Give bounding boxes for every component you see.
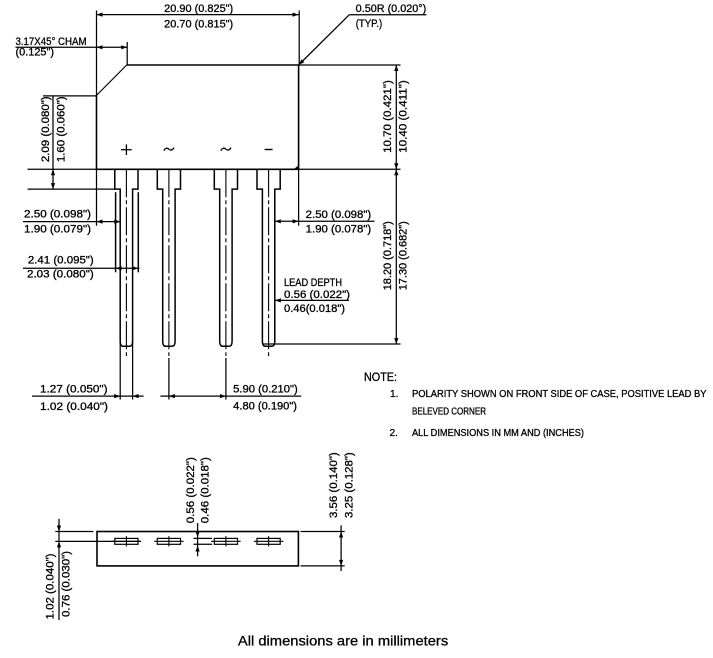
extension line body bottom right bbox=[299, 168, 401, 170]
lead depth dim line bbox=[275, 298, 349, 302]
dim text 20.70 bbox=[164, 19, 233, 31]
svg-text:10.40 (0.411"): 10.40 (0.411") bbox=[397, 80, 409, 153]
lead 4 centerline bbox=[268, 169, 270, 356]
lead 3 outline bbox=[214, 169, 237, 346]
dim text 1.90 right bbox=[306, 223, 372, 235]
dim text 2.50 left bbox=[24, 209, 91, 221]
extension line pin left bbox=[119, 341, 121, 400]
dim line 2.50 right bbox=[275, 219, 375, 223]
extension line body left lower bbox=[96, 169, 98, 225]
side view body outline bbox=[97, 532, 298, 566]
dim line 1.27 bbox=[32, 394, 144, 398]
dim text 18.20 rotated bbox=[382, 221, 394, 290]
dim text 5.90 bbox=[233, 384, 298, 396]
svg-text:5.90 (0.210"): 5.90 (0.210") bbox=[233, 384, 298, 396]
svg-text:0.46 (0.018"): 0.46 (0.018") bbox=[199, 457, 211, 523]
side text 1.02 rotated bbox=[44, 554, 56, 620]
svg-text:0.46(0.018"): 0.46(0.018") bbox=[284, 303, 345, 315]
extension line body right top bbox=[298, 11, 300, 66]
note 1 line 2 bbox=[412, 407, 486, 418]
svg-text:POLARITY SHOWN ON FRONT SI: POLARITY SHOWN ON FRONT SIDE OF CASE, PO… bbox=[412, 389, 707, 400]
lead 1 centerline bbox=[125, 169, 127, 356]
dim text 2.41 bbox=[28, 255, 94, 267]
dim text 1.60 rotated bbox=[55, 96, 67, 162]
svg-text:2.50 (0.098"): 2.50 (0.098") bbox=[306, 209, 372, 221]
svg-text:NOTE:: NOTE: bbox=[364, 372, 397, 384]
side view slot 1 bbox=[112, 536, 141, 546]
svg-text:1.90 (0.078"): 1.90 (0.078") bbox=[306, 223, 372, 235]
svg-text:1.60 (0.060"): 1.60 (0.060") bbox=[55, 96, 67, 162]
side ext line box top left bbox=[55, 531, 93, 533]
extension line body bottom left bbox=[28, 168, 97, 170]
svg-text:1.02 (0.040"): 1.02 (0.040") bbox=[40, 401, 108, 413]
extension line lead tip right bbox=[262, 343, 400, 345]
lead 4 outline bbox=[257, 169, 280, 346]
radius text 0.50R bbox=[356, 3, 427, 15]
dim text 20.90 bbox=[164, 3, 233, 15]
polarity symbol ac 2 bbox=[221, 148, 231, 151]
side ext line slot center left bbox=[55, 540, 141, 542]
dim line 20.90 bbox=[97, 13, 299, 17]
dim line 5.90 bbox=[160, 394, 301, 398]
svg-text:0.76 (0.030"): 0.76 (0.030") bbox=[61, 551, 73, 617]
dim line 18.20 bbox=[394, 169, 398, 344]
side text 3.25 rotated bbox=[343, 452, 355, 518]
radius leader line bbox=[299, 15, 427, 65]
extension line body right lower bbox=[298, 169, 300, 225]
svg-text:20.90 (0.825"): 20.90 (0.825") bbox=[164, 3, 233, 15]
side text 0.76 rotated bbox=[61, 551, 73, 617]
note header bbox=[364, 372, 397, 384]
lead 3 centerline bbox=[225, 169, 227, 356]
note 2 line bbox=[412, 428, 584, 439]
svg-text:18.20 (0.718"): 18.20 (0.718") bbox=[382, 221, 394, 290]
svg-text:2.03 (0.080"): 2.03 (0.080") bbox=[27, 269, 94, 281]
svg-text:1.90 (0.079"): 1.90 (0.079") bbox=[24, 224, 91, 236]
dim text chamfer inches bbox=[16, 47, 55, 59]
dim text 4.60 bbox=[233, 401, 297, 413]
svg-text:ALL DIMENSIONS IN MM AND: ALL DIMENSIONS IN MM AND (INCHES) bbox=[412, 428, 584, 439]
extension line shoulder bottom left bbox=[28, 188, 115, 190]
svg-text:0.56 (0.022"): 0.56 (0.022") bbox=[185, 457, 197, 523]
dim line 10.70 bbox=[394, 65, 398, 169]
svg-text:20.70 (0.815"): 20.70 (0.815") bbox=[164, 19, 233, 31]
polarity symbol ac 1 bbox=[164, 148, 174, 151]
chamfer extension line bbox=[126, 42, 128, 65]
extension line chamfer bottom left bbox=[43, 95, 97, 97]
dim text 17.30 rotated bbox=[397, 221, 409, 290]
svg-text:4.80 (0.190"): 4.80 (0.190") bbox=[233, 401, 297, 413]
footer text bbox=[238, 633, 448, 649]
lead 2 centerline bbox=[168, 169, 170, 356]
dim text 2.09 rotated bbox=[40, 96, 52, 162]
lead depth label bbox=[284, 277, 342, 289]
side dim line 3.56 bbox=[339, 525, 343, 571]
extension line lead2 center bbox=[168, 358, 170, 400]
slot height dim line bbox=[196, 523, 200, 556]
radius text TYP bbox=[356, 18, 383, 30]
dim line 2.50 left bbox=[23, 220, 120, 224]
slot height ext line top bbox=[194, 537, 213, 539]
svg-text:0.56 (0.022"): 0.56 (0.022") bbox=[284, 289, 350, 301]
side view slot 2 bbox=[154, 536, 183, 546]
extension line lead3 center bbox=[225, 358, 227, 400]
dim text 1.02 bbox=[40, 401, 108, 413]
lead 1 lower profile line left bbox=[115, 192, 117, 272]
svg-text:2.09 (0.080"): 2.09 (0.080") bbox=[40, 96, 52, 162]
svg-text:0.50R (0.020°): 0.50R (0.020°) bbox=[356, 3, 427, 15]
dim text 2.03 bbox=[27, 269, 94, 281]
svg-text:3.25 (0.128"): 3.25 (0.128") bbox=[343, 452, 355, 518]
svg-text:1.02 (0.040"): 1.02 (0.040") bbox=[44, 554, 56, 620]
extension line body left top bbox=[96, 11, 98, 96]
lead depth text 0.56 bbox=[284, 289, 350, 301]
extension line body top right bbox=[299, 64, 401, 66]
svg-text:(TYP.): (TYP.) bbox=[356, 18, 383, 30]
corner mark at body bottom-right bbox=[294, 166, 298, 169]
side ext line box top right bbox=[301, 531, 345, 533]
lead 1 lower profile line right bbox=[137, 192, 139, 272]
svg-text:17.30 (0.682"): 17.30 (0.682") bbox=[397, 221, 409, 290]
dim text 1.27 bbox=[40, 384, 108, 396]
dim text 10.70 rotated bbox=[382, 80, 394, 153]
extension line pin right bbox=[132, 341, 134, 400]
lead 2 outline bbox=[157, 169, 180, 346]
dim text 2.50 right bbox=[306, 209, 372, 221]
note 1 line 1 bbox=[412, 389, 707, 400]
body chamfer edge bbox=[97, 65, 127, 95]
dim text 10.40 rotated bbox=[397, 80, 409, 153]
slot height ext line bottom bbox=[194, 543, 213, 545]
polarity symbol minus bbox=[265, 149, 273, 151]
slot height text 0.46 rotated bbox=[199, 457, 211, 523]
svg-text:1.27 (0.050"): 1.27 (0.050") bbox=[40, 384, 108, 396]
side dim line 1.02 bbox=[57, 519, 61, 620]
dim text 1.90 left bbox=[24, 224, 91, 236]
dim line 2.09 bbox=[51, 96, 55, 189]
rectifier body outline bbox=[97, 65, 299, 169]
svg-text:All dimensions are in millimet: All dimensions are in millimeters bbox=[238, 633, 448, 649]
side ext line box bottom right bbox=[301, 565, 345, 567]
chamfer dim line bbox=[16, 45, 128, 49]
slot height text 0.56 rotated bbox=[185, 457, 197, 523]
polarity symbol plus bbox=[121, 144, 132, 155]
svg-text:2.41 (0.095"): 2.41 (0.095") bbox=[28, 255, 94, 267]
side view slot 4 bbox=[254, 536, 283, 546]
side view slot 3 bbox=[211, 536, 240, 546]
note 2 number bbox=[390, 428, 399, 439]
dim line 2.41 bbox=[23, 266, 140, 270]
side text 3.56 rotated bbox=[328, 452, 340, 518]
note 1 number bbox=[390, 389, 399, 400]
svg-text:2.50 (0.098"): 2.50 (0.098") bbox=[24, 209, 91, 221]
svg-text:BELEVED CORNER: BELEVED CORNER bbox=[412, 407, 486, 418]
svg-text:3.56 (0.140"): 3.56 (0.140") bbox=[328, 452, 340, 518]
svg-text:(0.125"): (0.125") bbox=[16, 47, 55, 59]
svg-text:2.: 2. bbox=[390, 428, 399, 439]
lead depth text 0.46 bbox=[284, 303, 345, 315]
svg-text:1.: 1. bbox=[390, 389, 399, 400]
lead 1 outline bbox=[115, 169, 138, 346]
svg-text:LEAD DEPTH: LEAD DEPTH bbox=[284, 277, 342, 289]
dim text chamfer bbox=[16, 36, 87, 48]
svg-text:10.70 (0.421"): 10.70 (0.421") bbox=[382, 80, 394, 153]
